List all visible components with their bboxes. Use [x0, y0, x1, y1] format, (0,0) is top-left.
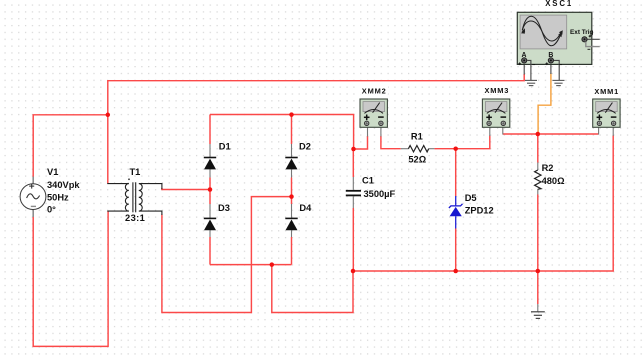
terminal A	[518, 58, 535, 80]
wire bridge bottom	[210, 264, 292, 266]
wire D1 pins	[209, 144, 211, 157]
node junction R1/D5/XMM3	[453, 146, 458, 151]
svg-text:XMM3: XMM3	[485, 86, 510, 95]
svg-text:D4: D4	[299, 203, 312, 213]
wire ground pin	[537, 304, 539, 312]
wire T1 secondary top to bridge left mid	[162, 188, 210, 190]
transformer T1	[107, 178, 162, 215]
wire bridge bottom to ground rail	[272, 265, 353, 313]
svg-text:D2: D2	[299, 141, 311, 151]
wire D2 pins	[291, 144, 293, 157]
wire ground rail	[353, 135, 613, 271]
wire R2 pins	[537, 163, 539, 171]
wire V1 top pin	[32, 177, 34, 184]
wire R2 bottom to ground rail	[537, 195, 539, 272]
capacitor C1	[346, 191, 361, 196]
wire node E down to D5	[455, 149, 457, 196]
wires layer	[33, 74, 613, 346]
svg-text:340Vpk: 340Vpk	[47, 180, 80, 190]
wire scope A pin	[523, 62, 525, 75]
wire XMM2 minus pin	[380, 127, 382, 137]
svg-text:XSC1: XSC1	[545, 0, 573, 8]
svg-text:480Ω: 480Ω	[542, 176, 566, 186]
wire R2 top stub	[537, 134, 539, 163]
wire D3 pins	[209, 204, 211, 218]
terminal ExtTrig	[582, 35, 600, 49]
multimeter XMM1	[592, 87, 621, 128]
wire XMM3 minus pin	[502, 127, 504, 135]
svg-text:D5: D5	[465, 193, 477, 203]
wire bridge left branch segments	[209, 115, 211, 145]
node junction C1 bottom / ground rail	[351, 269, 356, 274]
oscilloscope XSC1	[517, 12, 599, 85]
terminal B	[545, 58, 562, 80]
wire bridge right branch segments	[291, 115, 293, 145]
node junction secondary-top/bridge-left	[208, 187, 213, 192]
node junction scope-B/R2/rail	[536, 132, 541, 137]
zener diode D5	[449, 196, 463, 229]
svg-text:C1: C1	[362, 175, 374, 185]
AC source V1	[20, 184, 46, 210]
node junction C1/XMM2	[351, 147, 356, 152]
gray pin stubs	[33, 62, 613, 312]
wire C1 top stub	[352, 149, 354, 177]
resistor R1	[408, 146, 428, 152]
wire XMM1 plus pin	[598, 127, 600, 135]
wire R1 right to node E to XMM3 plus	[434, 136, 489, 149]
node junction bridge top / D2	[289, 112, 294, 117]
wire bridge top to C1 node	[210, 115, 354, 150]
svg-text:3500µF: 3500µF	[364, 189, 396, 199]
svg-text:ZPD12: ZPD12	[465, 205, 494, 215]
wire XMM3 plus pin	[489, 127, 491, 136]
wire T1 secondary bottom loop to bridge right mid	[162, 197, 292, 313]
multimeter XMM3	[482, 86, 511, 128]
wire node A up and top rail to scope A	[108, 74, 524, 115]
wire V1 bottom loop to T1 primary bottom	[33, 211, 108, 346]
resistor R2	[535, 170, 541, 189]
diode D4	[285, 218, 297, 230]
svg-text:V1: V1	[47, 167, 58, 177]
ground under scope A	[525, 80, 537, 85]
svg-text:R2: R2	[542, 163, 554, 173]
wire D5 bottom to ground rail	[455, 229, 457, 272]
wire V1 top to node A	[33, 115, 108, 177]
svg-text:XMM1: XMM1	[594, 87, 619, 96]
diode D2	[285, 158, 297, 170]
svg-text:0°: 0°	[47, 204, 56, 214]
wire C1 node to XMM2 plus	[354, 136, 368, 149]
label XSC1	[544, 0, 575, 8]
wire scope B orange	[538, 74, 551, 135]
multimeter XMM2	[360, 86, 389, 127]
diode D3	[204, 218, 216, 230]
wire D4 pins	[291, 204, 293, 218]
node junction secondary-bottom/bridge-right	[289, 194, 294, 199]
wire C1 pins	[352, 177, 354, 190]
node junction bridge bottom	[270, 262, 275, 267]
wire C1 bottom stub	[352, 208, 354, 271]
wire XMM3 minus rail to XMM1 plus	[503, 133, 599, 135]
svg-text:52Ω: 52Ω	[408, 155, 426, 165]
wire ground symbol stub	[537, 271, 539, 304]
wire V1 bottom pin	[32, 209, 34, 217]
ground	[531, 312, 545, 319]
node junction V1/top-rail	[106, 113, 111, 118]
wire XMM2 minus to R1	[381, 136, 401, 149]
wire node A down to T1 primary top	[107, 115, 109, 184]
svg-text:T1: T1	[130, 167, 141, 177]
wire XMM2 plus pin	[367, 127, 369, 137]
svg-text:D1: D1	[219, 141, 231, 151]
svg-text:50Hz: 50Hz	[47, 192, 69, 202]
node junction R2 bottom / ground	[536, 269, 541, 274]
svg-text:23:1: 23:1	[125, 213, 145, 223]
svg-text:R1: R1	[411, 131, 423, 141]
scope waveform	[521, 16, 563, 46]
wire XMM1 minus pin	[612, 127, 614, 136]
wire scope B pin	[550, 62, 552, 75]
svg-text:XMM2: XMM2	[362, 86, 387, 95]
node junction D5 bottom / ground rail	[453, 269, 458, 274]
svg-text:D3: D3	[218, 203, 230, 213]
wire R1 pins	[401, 148, 409, 150]
ground under scope B	[553, 80, 565, 85]
diode D1	[204, 158, 216, 170]
